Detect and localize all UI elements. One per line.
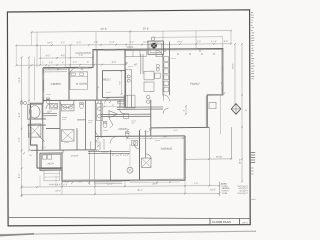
- porch steps: [95, 181, 122, 183]
- title block text column right strip: [251, 12, 253, 14]
- wall hall left x95: [94, 100, 96, 150]
- double door arcs mbdrm: [60, 101, 74, 108]
- dim ticks y45: [15, 45, 17, 47]
- svg-text:3'-6": 3'-6": [49, 62, 54, 64]
- toilet: [46, 99, 50, 104]
- laundry room box: [40, 153, 62, 170]
- svg-text:7'-6": 7'-6": [119, 81, 121, 85]
- hall toilet: [103, 123, 107, 128]
- exterior wall outline: [31, 49, 223, 182]
- svg-text:6'-2": 6'-2": [46, 55, 51, 57]
- garage x-box: [142, 158, 152, 167]
- kitchen counter left: [126, 69, 132, 107]
- svg-text:7'-6": 7'-6": [194, 183, 199, 185]
- dim line left x34: [34, 57, 36, 100]
- garage door lines: [130, 179, 180, 181]
- wall kitchen x125: [124, 49, 126, 107]
- misc tick cluster A: [97, 101, 99, 103]
- svg-text:24'-6": 24'-6": [55, 191, 61, 193]
- window marks left walls: [42, 74, 44, 80]
- mbath hall divider: [43, 112, 57, 114]
- mini dim below hall wall: [23, 152, 25, 154]
- svg-text:3 BDRM: 3 BDRM: [50, 82, 61, 86]
- patio outline: [208, 127, 210, 159]
- svg-text:15'-6": 15'-6": [233, 63, 235, 69]
- stoop steps: [44, 170, 60, 181]
- svg-text:BED 2: BED 2: [103, 78, 111, 81]
- svg-text:10'-6": 10'-6": [47, 42, 53, 44]
- svg-text:A4: A4: [245, 109, 247, 112]
- misc annotation dashes: [47, 110, 52, 112]
- dining left wall x101: [100, 100, 102, 136]
- mini dim hall: [97, 138, 99, 146]
- svg-text:7'-0": 7'-0": [79, 55, 84, 57]
- svg-text:9'-4": 9'-4": [19, 112, 21, 117]
- mini dim bed2: [104, 106, 122, 108]
- powder vanity: [132, 140, 138, 145]
- svg-text:8'-0": 8'-0": [112, 62, 117, 64]
- dim ticks y58: [39, 57, 41, 59]
- svg-text:3'-0": 3'-0": [123, 155, 127, 157]
- svg-text:5'-0": 5'-0": [116, 155, 120, 157]
- powder toilet: [125, 133, 129, 138]
- svg-text:20'-0": 20'-0": [152, 183, 158, 185]
- closet double lines bdrm1: [45, 69, 68, 71]
- svg-text:30'-2": 30'-2": [137, 190, 143, 192]
- eave line top right: [152, 36, 223, 39]
- svg-text:7'-2": 7'-2": [19, 137, 21, 142]
- window right wall extra: [221, 72, 223, 86]
- svg-text:FLOOR PLAN: FLOOR PLAN: [212, 220, 230, 224]
- window marks right wall: [221, 52, 223, 66]
- wall x77 closet: [76, 128, 78, 150]
- svg-text:FAMILY: FAMILY: [190, 82, 200, 86]
- bottom wall mini dims: [61, 182, 63, 184]
- svg-text:20'-4": 20'-4": [143, 26, 150, 30]
- svg-text:9'-2": 9'-2": [77, 42, 82, 44]
- dining top double wall y115: [101, 113, 151, 115]
- dim ext verticals left margin: [31, 32, 33, 45]
- svg-text:2554 SQ FT: 2554 SQ FT: [237, 193, 248, 195]
- shower door diagonal: [37, 133, 45, 142]
- dim line left x21: [21, 57, 23, 196]
- svg-text:4'-2": 4'-2": [61, 42, 66, 44]
- mini dim garage top: [127, 137, 183, 139]
- wall x145 stub: [145, 130, 147, 158]
- svg-text:10'-2": 10'-2": [107, 184, 113, 186]
- tub: [28, 104, 43, 119]
- kitchen sink circles: [147, 95, 150, 98]
- hall vanity: [97, 104, 103, 121]
- master bed symbol: [70, 72, 88, 90]
- section diamond marker: [231, 104, 241, 115]
- kitchen top counter band: [126, 50, 147, 56]
- wall x60 baths: [59, 100, 61, 150]
- svg-text:62'-8": 62'-8": [101, 27, 108, 31]
- svg-text:13'-6": 13'-6": [19, 77, 21, 83]
- title bar divider line: [8, 217, 250, 218]
- fireplace box: [148, 41, 164, 54]
- door arc garage hall: [134, 143, 140, 149]
- svg-text:PATIO: PATIO: [216, 156, 223, 159]
- dim extension lines bottom: [61, 168, 63, 195]
- family can lights: [177, 53, 179, 55]
- dim line bottom y196: [22, 193, 220, 195]
- svg-text:11'-0": 11'-0": [109, 42, 115, 44]
- dim line top y45: [16, 44, 231, 46]
- wall x85 closet: [85, 100, 87, 150]
- paper bottom edge shadow: [0, 231, 256, 234]
- window marks bed walls: [55, 67, 64, 69]
- dining right wall x150: [150, 100, 152, 136]
- dim ticks left x21: [21, 56, 23, 58]
- chimney circle: [151, 37, 155, 41]
- dim line top overall y32: [32, 31, 231, 33]
- svg-text:PORCH 6'-0 X 12'-0: PORCH 6'-0 X 12'-0: [49, 184, 68, 186]
- wall y128 left: [46, 127, 60, 129]
- door arc hall bath: [96, 130, 103, 137]
- wall y150 hall bottom: [31, 149, 96, 152]
- svg-text:5'-4": 5'-4": [79, 182, 83, 184]
- dim line right x242: [241, 44, 243, 182]
- closet x-box: [62, 130, 75, 141]
- svg-text:COV'D PATIO: COV'D PATIO: [75, 52, 91, 55]
- paper background: [0, 0, 256, 240]
- svg-text:19'-8": 19'-8": [163, 136, 168, 138]
- dim ticks y196: [21, 194, 23, 196]
- wall bedroom divider x69: [68, 67, 70, 100]
- dim ticks right x235: [234, 43, 236, 45]
- dim line bottom y187: [22, 186, 220, 188]
- svg-text:7'-0": 7'-0": [29, 155, 33, 157]
- fireplace dark blob: [151, 43, 157, 49]
- svg-text:TOTAL: TOTAL: [222, 192, 228, 195]
- mini dim family: [185, 106, 187, 114]
- porch roof lines: [88, 150, 130, 152]
- door arc family: [164, 95, 170, 101]
- wall x46 bath right: [42, 103, 44, 150]
- kitchen small box: [124, 113, 129, 118]
- dim line right x228: [220, 95, 222, 134]
- wall y119 bath: [31, 118, 47, 120]
- door arc dining: [120, 109, 126, 115]
- svg-text:PORCH: PORCH: [101, 152, 109, 154]
- svg-text:8'-6": 8'-6": [224, 41, 229, 43]
- svg-text:AREA: AREA: [221, 182, 227, 185]
- wall family bottom y128: [151, 126, 210, 128]
- dim ticks y65: [16, 64, 18, 66]
- door arc kitchen hall: [163, 108, 169, 114]
- svg-text:18'-0": 18'-0": [210, 189, 216, 191]
- entry walls: [89, 150, 91, 185]
- mbath vanity: [50, 103, 58, 109]
- wall x96 bedrooms right: [96, 50, 98, 101]
- dim ticks left x29: [28, 56, 30, 58]
- svg-text:21'-0": 21'-0": [239, 158, 241, 164]
- hall double wall y108: [117, 106, 163, 108]
- wall clutter right of kitchen: [156, 64, 159, 67]
- wall y120 stub: [77, 119, 86, 121]
- oven wall double: [140, 54, 142, 74]
- dim line left x29: [28, 57, 30, 150]
- svg-text:GARAGE: GARAGE: [161, 147, 173, 151]
- title box dividers: [209, 218, 211, 225]
- svg-text:M. BDRM: M. BDRM: [76, 82, 87, 86]
- porch column wall: [110, 150, 112, 181]
- door arc bedroom1: [70, 68, 77, 75]
- svg-text:5'-4": 5'-4": [130, 42, 135, 44]
- bath2 vanity: [62, 104, 75, 111]
- svg-text:LNDRY: LNDRY: [47, 163, 55, 165]
- door arc entry: [110, 136, 118, 143]
- svg-text:3'-6": 3'-6": [197, 41, 202, 43]
- dim ticks y187: [21, 186, 23, 188]
- wall garage left x139: [139, 130, 141, 180]
- dim line top y58: [40, 57, 93, 59]
- stair arrow triangle: [109, 111, 118, 118]
- wall garage top y137: [95, 135, 185, 138]
- pantry shelves: [124, 95, 135, 108]
- wall y100 bedrooms bottom: [43, 99, 125, 102]
- firebox curve: [156, 50, 163, 57]
- svg-text:ENTRY: ENTRY: [91, 150, 99, 152]
- svg-text:3'-2": 3'-2": [73, 62, 78, 64]
- fan drop line: [129, 144, 131, 167]
- svg-text:STOOP: STOOP: [71, 156, 79, 158]
- svg-text:11'-4": 11'-4": [211, 41, 217, 43]
- dim ticks y32: [31, 31, 33, 33]
- mini dim kitchen: [121, 71, 123, 94]
- wall family left x163: [162, 54, 164, 96]
- closet double y103: [117, 101, 125, 103]
- svg-text:4'-6": 4'-6": [61, 55, 66, 57]
- hose bibb circles: [20, 101, 23, 104]
- kitchen range circles: [127, 75, 130, 78]
- exterior wall inner face: [44, 50, 222, 180]
- wall y125 bath2: [28, 124, 47, 126]
- svg-text:8'-0": 8'-0": [19, 173, 21, 178]
- area legend table: [218, 182, 220, 197]
- nook box right wing: [209, 102, 216, 108]
- svg-text:DINING: DINING: [118, 127, 127, 131]
- electrical symbols: [57, 68, 59, 70]
- mbath2 toilet: [80, 104, 84, 109]
- svg-text:1 OF 4: 1 OF 4: [242, 222, 248, 224]
- shower x-box: [28, 124, 41, 137]
- fan symbol circle-x 2: [127, 167, 133, 173]
- door arc mbath: [46, 104, 52, 110]
- sheet border frame: [7, 10, 250, 226]
- svg-text:10'-0": 10'-0": [177, 41, 183, 43]
- wall x120 stub: [119, 100, 121, 107]
- svg-text:3'-0": 3'-0": [65, 182, 69, 184]
- mini dim bath left: [42, 129, 44, 141]
- kitchen island boxes: [144, 71, 154, 80]
- window marks top wall: [104, 49, 116, 51]
- svg-text:NOOK: NOOK: [127, 47, 134, 49]
- utility stack boxes: [164, 57, 169, 62]
- dim line top y65: [17, 64, 96, 67]
- bed2 closet room: [103, 71, 126, 98]
- dim line right x235: [234, 44, 236, 105]
- svg-text:KIT.: KIT.: [134, 64, 138, 66]
- door arc bed2 room: [105, 97, 111, 103]
- dim extension lines top: [36, 32, 38, 67]
- misc tick cluster B: [127, 129, 129, 131]
- dim ticks right x242: [241, 43, 243, 45]
